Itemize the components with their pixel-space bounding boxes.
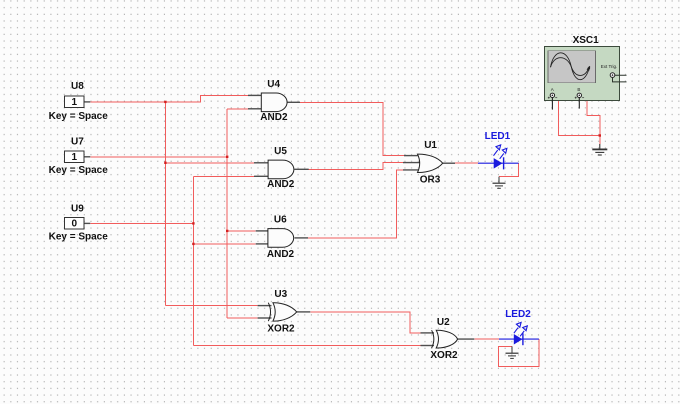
svg-text:Key = Space: Key = Space xyxy=(49,111,109,122)
svg-text:U1: U1 xyxy=(424,140,437,151)
svg-text:U9: U9 xyxy=(71,204,84,215)
pin U2 input B xyxy=(421,345,435,347)
svg-text:1: 1 xyxy=(72,152,78,163)
pin U1 input 1 xyxy=(404,155,420,157)
pin U5 output xyxy=(294,168,308,170)
svg-text:OR3: OR3 xyxy=(420,175,441,186)
wire U9 net to U2 input B xyxy=(193,345,420,347)
wire U4 output to U1 input 1 xyxy=(300,102,404,155)
pin U1 input 2 xyxy=(403,162,421,164)
pin scope A plus stub xyxy=(551,98,553,110)
pin U2 input A xyxy=(421,332,435,334)
oscilloscope XSC1 xyxy=(545,35,627,109)
node U8 net at output xyxy=(164,101,166,103)
and-gate U5 xyxy=(267,146,295,190)
pin U1 output xyxy=(443,162,455,164)
wire U7 net vertical xyxy=(226,109,228,318)
svg-text:XOR2: XOR2 xyxy=(430,350,458,361)
or-gate U1 xyxy=(418,140,443,186)
svg-text:XOR2: XOR2 xyxy=(267,324,295,335)
and-gate U6 xyxy=(267,214,295,260)
wire scope channel B minus to ground xyxy=(587,101,600,136)
switch U7 xyxy=(49,136,109,176)
pin U1 input 3 xyxy=(403,169,420,171)
pin U4 input B xyxy=(248,108,261,110)
wire U5 output to U1 input 2 xyxy=(309,163,403,170)
svg-text:XSC1: XSC1 xyxy=(573,35,600,46)
wire U8 net vertical xyxy=(164,102,166,306)
svg-text:Key = Space: Key = Space xyxy=(49,231,109,242)
svg-text:U3: U3 xyxy=(274,289,287,300)
switch U8 xyxy=(49,81,109,122)
wire U8 output horizontal xyxy=(90,95,248,102)
svg-text:AND2: AND2 xyxy=(267,249,295,260)
pin U6 output xyxy=(295,237,309,239)
wire U7 net to U6 input A xyxy=(227,230,256,232)
svg-text:LED1: LED1 xyxy=(485,131,511,142)
wire scope ground stem xyxy=(599,136,601,145)
pin U3 input A xyxy=(258,305,272,307)
PINS xyxy=(84,95,475,345)
pin U3 output xyxy=(297,311,311,313)
wire U9 net to U5 input B xyxy=(193,175,254,177)
pin U6 input B xyxy=(256,243,268,245)
node U7 net to U6 xyxy=(226,230,228,232)
pin U4 input A xyxy=(248,94,261,96)
ground below LED2 xyxy=(506,346,519,358)
svg-text:U8: U8 xyxy=(71,81,84,92)
wire U6 output to U1 input 3 xyxy=(308,170,403,238)
wire U2 output to LED2 xyxy=(474,338,499,340)
wire U7 output horizontal xyxy=(90,156,227,158)
LED2 xyxy=(499,309,539,345)
scope terminal polarity marks xyxy=(548,97,584,99)
scope trace A xyxy=(551,53,590,80)
svg-text:Key = Space: Key = Space xyxy=(49,165,109,176)
node U9 net to U6 xyxy=(192,243,194,245)
pin U2 output xyxy=(458,338,475,340)
svg-text:U5: U5 xyxy=(274,146,287,157)
wire U9 net vertical xyxy=(192,176,194,345)
wire scope channel A minus to ground xyxy=(559,101,600,136)
wire U8 net to U5 input A xyxy=(165,162,254,164)
wire U7 net to U4 input B xyxy=(227,108,248,110)
svg-text:A: A xyxy=(551,87,554,92)
svg-text:Ext Trig.: Ext Trig. xyxy=(601,64,618,69)
node U9 net at output xyxy=(192,222,194,224)
wire U9 net to U6 input B xyxy=(193,243,255,245)
wire U1 output to LED1 xyxy=(455,162,478,164)
and-gate U4 xyxy=(260,79,288,123)
xor-gate U2 xyxy=(430,317,458,361)
switch U9 xyxy=(49,204,109,243)
svg-text:0: 0 xyxy=(72,218,78,229)
svg-text:B: B xyxy=(577,87,580,92)
wire LED2 cathode to ground xyxy=(499,339,539,366)
pin U5 input B xyxy=(254,175,268,177)
pin U9 output xyxy=(84,222,91,224)
ground below scope xyxy=(592,144,607,155)
scope trace B xyxy=(551,58,589,76)
wire U3 output to U2 input A xyxy=(310,312,420,333)
pin U5 input A xyxy=(254,162,268,164)
svg-text:1: 1 xyxy=(72,97,78,108)
pin U4 output xyxy=(287,101,300,103)
svg-text:U6: U6 xyxy=(274,214,287,225)
ground below LED1 xyxy=(493,177,506,189)
pin U6 input A xyxy=(256,230,268,232)
pin U3 input B xyxy=(258,317,272,319)
node scope ground junction xyxy=(599,134,601,136)
node U8 net to U5 xyxy=(164,162,166,164)
wire U9 output horizontal xyxy=(90,222,193,224)
svg-text:LED2: LED2 xyxy=(505,309,531,320)
svg-text:AND2: AND2 xyxy=(267,179,295,190)
svg-text:U4: U4 xyxy=(267,79,280,90)
wire U8 net to U3 input A xyxy=(165,305,257,307)
JUNCTION DOTS xyxy=(164,101,601,245)
node U7 net at output xyxy=(226,156,228,158)
svg-text:AND2: AND2 xyxy=(260,112,288,123)
xor-gate U3 xyxy=(267,289,296,335)
LED1 xyxy=(478,131,519,169)
pin U7 output xyxy=(84,156,91,158)
wire U7 net to U3 input B xyxy=(227,317,257,319)
pin U8 output xyxy=(84,101,91,103)
svg-text:U2: U2 xyxy=(437,317,450,328)
svg-text:U7: U7 xyxy=(71,136,84,147)
wire LED1 cathode to ground xyxy=(499,163,519,176)
pin scope B plus stub xyxy=(578,98,580,109)
